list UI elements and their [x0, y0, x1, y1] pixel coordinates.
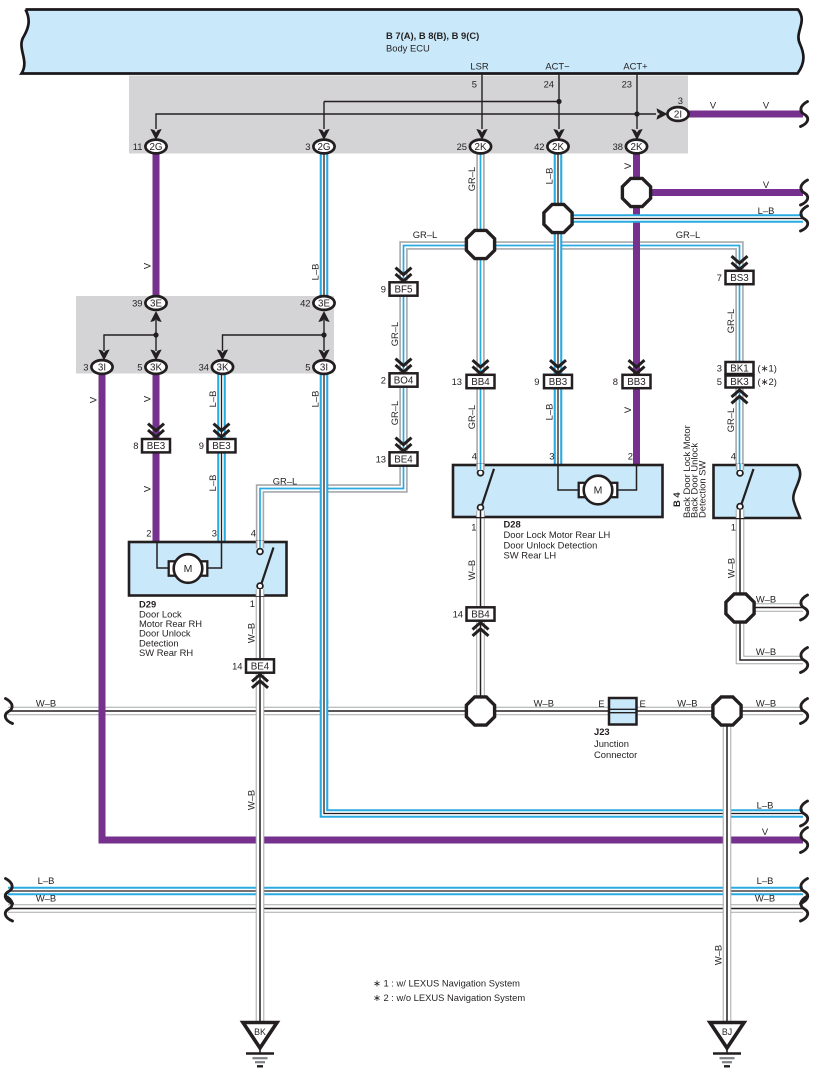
- svg-text:W–B: W–B: [246, 790, 257, 810]
- svg-text:W–B: W–B: [756, 698, 776, 709]
- svg-text:L–B: L–B: [757, 800, 774, 811]
- svg-text:3I: 3I: [98, 362, 106, 373]
- svg-text:BB3: BB3: [549, 377, 568, 388]
- svg-text:BO4: BO4: [394, 376, 414, 387]
- svg-text:4: 4: [472, 451, 477, 462]
- svg-text:V: V: [622, 406, 633, 413]
- svg-text:25: 25: [457, 141, 467, 152]
- svg-text:13: 13: [376, 454, 386, 465]
- svg-text:W–B: W–B: [534, 698, 554, 709]
- svg-text:M: M: [594, 485, 603, 497]
- svg-text:L–B: L–B: [38, 875, 55, 886]
- svg-text:BS3: BS3: [730, 273, 749, 284]
- svg-text:4: 4: [251, 528, 256, 539]
- svg-text:2K: 2K: [552, 142, 564, 153]
- svg-text:V: V: [622, 162, 633, 169]
- svg-text:BE3: BE3: [147, 441, 166, 452]
- svg-text:BE4: BE4: [394, 455, 413, 466]
- svg-text:1: 1: [731, 522, 736, 533]
- svg-text:3: 3: [305, 141, 310, 152]
- svg-text:1: 1: [471, 522, 476, 533]
- svg-text:8: 8: [133, 440, 138, 451]
- svg-text:(∗2): (∗2): [758, 376, 777, 387]
- svg-text:L–B: L–B: [207, 391, 218, 408]
- svg-text:W–B: W–B: [756, 594, 776, 605]
- svg-text:GR–L: GR–L: [389, 401, 400, 426]
- svg-text:V: V: [142, 485, 153, 492]
- svg-text:4: 4: [731, 451, 736, 462]
- svg-text:7: 7: [717, 272, 722, 283]
- svg-text:W–B: W–B: [755, 893, 775, 904]
- svg-text:2K: 2K: [475, 142, 487, 153]
- svg-text:9: 9: [199, 440, 204, 451]
- svg-text:W–B: W–B: [756, 646, 776, 657]
- svg-text:42: 42: [300, 298, 310, 309]
- svg-text:3K: 3K: [150, 362, 162, 373]
- svg-text:9: 9: [381, 284, 386, 295]
- svg-text:3E: 3E: [318, 298, 330, 309]
- svg-text:W–B: W–B: [713, 945, 724, 965]
- svg-text:L–B: L–B: [544, 168, 555, 185]
- svg-text:5: 5: [137, 362, 142, 373]
- svg-text:2: 2: [381, 375, 386, 386]
- svg-text:42: 42: [534, 141, 544, 152]
- svg-text:W–B: W–B: [466, 560, 477, 580]
- svg-text:L–B: L–B: [758, 205, 775, 216]
- svg-text:L–B: L–B: [757, 875, 774, 886]
- svg-text:ACT−: ACT−: [545, 61, 570, 72]
- svg-text:B 7(A), B 8(B), B 9(C): B 7(A), B 8(B), B 9(C): [386, 30, 479, 41]
- svg-text:3: 3: [83, 362, 88, 373]
- svg-text:GR–L: GR–L: [466, 405, 477, 430]
- svg-text:W–B: W–B: [36, 893, 56, 904]
- svg-text:∗ 2 : w/o LEXUS Navigation Sys: ∗ 2 : w/o LEXUS Navigation System: [373, 992, 525, 1003]
- svg-text:GR–L: GR–L: [466, 167, 477, 192]
- svg-text:GR–L: GR–L: [389, 322, 400, 347]
- svg-text:L–B: L–B: [310, 264, 321, 281]
- svg-text:V: V: [762, 826, 769, 837]
- svg-text:V: V: [710, 100, 717, 111]
- svg-text:9: 9: [534, 376, 539, 387]
- svg-text:11: 11: [133, 141, 143, 152]
- svg-text:GR–L: GR–L: [676, 229, 701, 240]
- svg-text:2: 2: [146, 528, 151, 539]
- svg-text:BK1: BK1: [730, 364, 749, 375]
- svg-text:2I: 2I: [674, 109, 682, 120]
- svg-text:BB3: BB3: [627, 377, 646, 388]
- svg-text:Body ECU: Body ECU: [386, 43, 430, 54]
- svg-text:GR–L: GR–L: [725, 408, 736, 433]
- svg-text:GR–L: GR–L: [413, 229, 438, 240]
- svg-text:L–B: L–B: [544, 404, 555, 421]
- svg-text:2G: 2G: [149, 142, 162, 153]
- svg-text:GR–L: GR–L: [725, 309, 736, 334]
- svg-text:1: 1: [250, 598, 255, 609]
- svg-text:V: V: [142, 395, 153, 402]
- svg-text:ACT+: ACT+: [623, 61, 648, 72]
- svg-text:M: M: [184, 563, 193, 575]
- svg-text:13: 13: [452, 376, 462, 387]
- svg-text:LSR: LSR: [470, 61, 488, 72]
- svg-text:38: 38: [613, 141, 623, 152]
- svg-text:39: 39: [132, 298, 142, 309]
- svg-text:GR–L: GR–L: [273, 476, 298, 487]
- svg-text:Detection SW: Detection SW: [696, 461, 707, 518]
- svg-text:Connector: Connector: [594, 749, 637, 760]
- svg-text:14: 14: [453, 609, 463, 620]
- svg-text:3I: 3I: [320, 362, 328, 373]
- svg-text:E: E: [598, 698, 604, 709]
- svg-text:Junction: Junction: [594, 738, 629, 749]
- svg-text:2G: 2G: [317, 142, 330, 153]
- svg-text:SW Rear LH: SW Rear LH: [504, 550, 557, 561]
- svg-text:V: V: [763, 100, 770, 111]
- svg-text:E: E: [640, 698, 646, 709]
- svg-text:23: 23: [622, 79, 632, 90]
- svg-text:J23: J23: [594, 726, 610, 737]
- svg-text:5: 5: [305, 362, 310, 373]
- svg-text:SW Rear RH: SW Rear RH: [139, 647, 193, 658]
- svg-text:24: 24: [544, 79, 554, 90]
- svg-text:BJ: BJ: [722, 1027, 732, 1037]
- svg-text:∗ 1 : w/ LEXUS Navigation Syst: ∗ 1 : w/ LEXUS Navigation System: [373, 978, 520, 989]
- svg-text:3K: 3K: [217, 362, 229, 373]
- svg-text:3: 3: [678, 95, 683, 106]
- svg-text:BB4: BB4: [471, 377, 490, 388]
- svg-text:3: 3: [717, 363, 722, 374]
- svg-text:3: 3: [549, 451, 554, 462]
- svg-text:8: 8: [613, 376, 618, 387]
- svg-text:5: 5: [472, 79, 477, 90]
- svg-text:14: 14: [232, 661, 242, 672]
- svg-text:D28: D28: [504, 519, 521, 530]
- svg-text:2K: 2K: [631, 142, 643, 153]
- svg-text:L–B: L–B: [207, 475, 218, 492]
- svg-text:W–B: W–B: [726, 558, 737, 578]
- svg-text:V: V: [142, 262, 153, 269]
- svg-text:BK: BK: [254, 1027, 266, 1037]
- svg-text:3E: 3E: [150, 298, 162, 309]
- svg-text:W–B: W–B: [677, 698, 697, 709]
- svg-text:V: V: [88, 396, 99, 403]
- svg-text:V: V: [763, 179, 770, 190]
- svg-text:34: 34: [199, 362, 209, 373]
- svg-text:W–B: W–B: [36, 698, 56, 709]
- svg-text:3: 3: [212, 528, 217, 539]
- svg-text:BK3: BK3: [730, 377, 749, 388]
- svg-text:(∗1): (∗1): [758, 363, 777, 374]
- svg-text:BE4: BE4: [251, 662, 270, 673]
- svg-text:2: 2: [628, 451, 633, 462]
- svg-text:L–B: L–B: [310, 391, 321, 408]
- svg-text:BF5: BF5: [395, 285, 414, 296]
- svg-text:W–B: W–B: [246, 623, 257, 643]
- svg-text:BE3: BE3: [212, 441, 231, 452]
- svg-text:5: 5: [717, 376, 722, 387]
- svg-text:BB4: BB4: [471, 610, 490, 621]
